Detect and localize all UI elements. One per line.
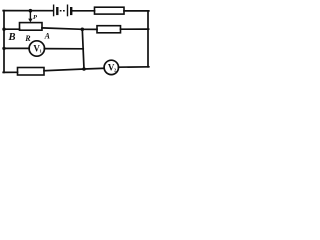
- junction dot A-wire / middle vertical: [81, 28, 85, 32]
- svg-text:1: 1: [39, 49, 42, 54]
- wire V2 to right corner: [119, 66, 149, 68]
- wiper P stem: [29, 11, 31, 20]
- wire bottom left: [3, 71, 17, 73]
- rheostat R box: [20, 23, 43, 31]
- battery E cell dashes: [60, 10, 66, 12]
- wiper P arrowhead: [28, 19, 32, 23]
- battery E long plate 2: [67, 5, 69, 15]
- wire V1 left: [4, 47, 29, 49]
- wire middle vertical: [82, 29, 84, 69]
- wire B terminal: [4, 28, 20, 30]
- svg-text:P: P: [33, 14, 38, 21]
- junction dot B on left vertical: [2, 28, 5, 31]
- wire V1 right: [44, 48, 83, 50]
- svg-text:R: R: [24, 34, 31, 43]
- wire top left segment: [3, 10, 52, 12]
- svg-text:B: B: [8, 32, 16, 43]
- voltmeter V1 circle: [29, 41, 44, 56]
- wire R3 to V2: [44, 68, 104, 70]
- svg-text:A: A: [44, 32, 51, 41]
- junction dot bottom wire / middle vertical: [82, 67, 86, 71]
- wire A to junction to R2: [42, 28, 97, 30]
- junction dot V1 on left vertical: [2, 47, 5, 50]
- junction dot wiper on top wire: [29, 9, 33, 13]
- wire battery to R1: [72, 10, 94, 12]
- resistor R3 box: [18, 68, 45, 76]
- wire right vertical: [147, 11, 149, 67]
- wire left vertical: [3, 11, 5, 73]
- battery E short plate 1: [56, 8, 58, 14]
- resistor R1 box: [95, 7, 125, 14]
- wire R1 to right vertical: [124, 10, 149, 12]
- battery E long plate 1: [53, 5, 55, 15]
- wire R2 to right vertical: [121, 28, 149, 30]
- battery E short plate 2: [70, 8, 72, 14]
- voltmeter V2 circle: [104, 60, 118, 74]
- resistor R2 box: [97, 26, 121, 33]
